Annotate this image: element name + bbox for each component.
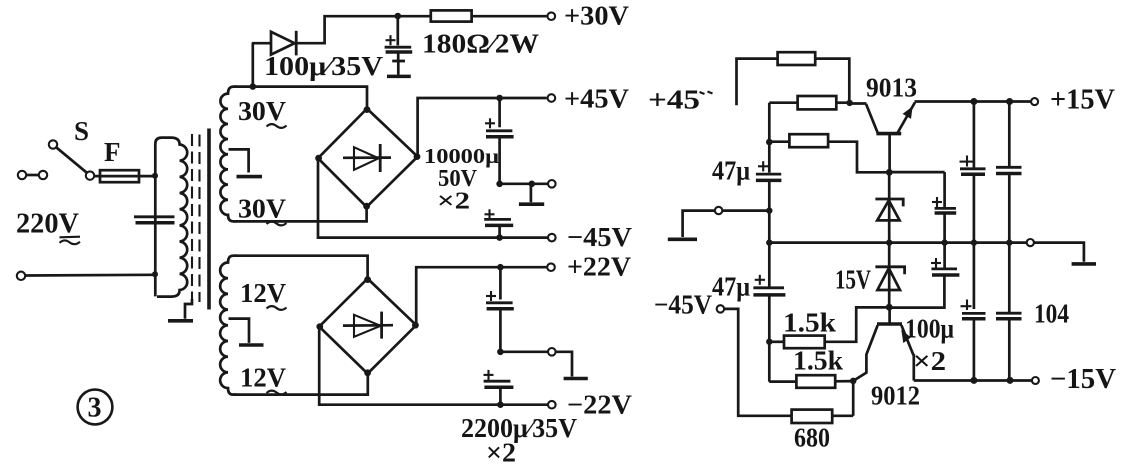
wire R2 right to node A xyxy=(836,101,849,104)
terminal +30V xyxy=(548,12,556,20)
wire bridge1 + up to +45V rail xyxy=(418,98,547,157)
junction node C xyxy=(886,304,893,311)
core laminate dashed line 1 xyxy=(191,134,193,300)
capacitor 100u upper xyxy=(932,201,942,203)
switch S contact xyxy=(86,171,94,179)
svg-text:3: 3 xyxy=(88,393,102,424)
svg-text:100μ: 100μ xyxy=(905,314,954,344)
resistor R2 xyxy=(798,96,837,109)
wire cap to -22V rail xyxy=(499,387,502,404)
wire 30V winding top to bridge 1 xyxy=(233,87,367,109)
svg-text:10000μ: 10000μ xyxy=(424,144,499,168)
secondary winding 30V+30V xyxy=(220,87,237,222)
svg-text:+30V: +30V xyxy=(564,1,630,31)
junction midpoint xyxy=(496,181,503,188)
-15V rail xyxy=(914,379,1032,382)
zener lower 15V xyxy=(888,243,891,290)
svg-text:30V: 30V xyxy=(238,194,287,224)
svg-text:9012: 9012 xyxy=(871,381,920,411)
wire diode to top rail xyxy=(296,16,431,43)
wire 12V winding top to bridge 2 xyxy=(233,256,368,279)
resistor R1 top xyxy=(778,52,816,65)
wire bridge1 - down to -45V rail xyxy=(318,158,548,237)
terminal: AC plug upper pin xyxy=(18,171,26,179)
wire 9013 emitter to +15V terminal xyxy=(915,100,1032,103)
figure number 3 xyxy=(78,390,113,425)
svg-text:+15V: +15V xyxy=(1050,85,1115,116)
12V center tap xyxy=(229,319,250,343)
svg-text:180Ω∕2W: 180Ω∕2W xyxy=(422,29,539,59)
transistor 9012 xyxy=(888,307,891,323)
electrolytic column at 974 xyxy=(970,98,977,105)
ground right of mid terminal xyxy=(1034,243,1084,262)
wire between plug pins xyxy=(27,174,39,177)
wire down to cap xyxy=(499,267,502,299)
terminal +15V xyxy=(1031,98,1038,105)
svg-text:220V: 220V xyxy=(16,208,79,240)
capacitor 100u 35V xyxy=(396,16,399,45)
svg-text:×2: ×2 xyxy=(486,438,516,468)
AC tilde under 220V xyxy=(60,236,81,239)
svg-text:2200μ∕35V: 2200μ∕35V xyxy=(461,413,577,443)
terminal: AC lower pin xyxy=(17,272,25,280)
line filter capacitor across primary, top plate xyxy=(134,215,175,218)
line filter capacitor bottom plate xyxy=(136,221,175,225)
left bus mid segment xyxy=(768,181,771,287)
svg-text:1.5k: 1.5k xyxy=(793,346,843,376)
terminal -22V xyxy=(548,401,556,409)
svg-text:+45: +45 xyxy=(648,85,700,115)
transistor 9013 xyxy=(876,132,901,136)
bridge 2 vertex junctions xyxy=(364,276,371,283)
ceramic 104 column at 1009 xyxy=(1006,98,1013,105)
junction node A xyxy=(846,100,852,106)
bridge 1 vertex junctions xyxy=(364,106,371,113)
svg-text:×2: ×2 xyxy=(437,189,470,215)
core solid line xyxy=(207,129,211,310)
terminal: AC contact xyxy=(39,171,47,179)
svg-text:47μ: 47μ xyxy=(712,156,750,186)
junction upper 1.5k tap xyxy=(766,339,772,345)
primary winding xyxy=(155,138,187,297)
diode D1 xyxy=(252,42,271,45)
wire R2 left to left bus xyxy=(769,101,797,104)
junction at ground stem xyxy=(529,181,536,188)
capacitor elec lower xyxy=(961,305,972,307)
ground under 100u cap xyxy=(397,52,400,60)
svg-text:+45V: +45V xyxy=(564,84,630,114)
capacitor 100u lower xyxy=(943,243,946,268)
svg-text:1.5k: 1.5k xyxy=(783,308,836,338)
wire cap to midpoint xyxy=(499,309,502,352)
wire down to cap C1 xyxy=(498,98,501,127)
junction node D xyxy=(850,378,857,385)
junction 100u column mid rail xyxy=(941,239,947,245)
wire junction up to diode xyxy=(251,43,254,88)
resistor 1.5k lower xyxy=(796,375,835,388)
fuse F body xyxy=(100,170,139,182)
svg-text:15V: 15V xyxy=(835,265,871,295)
junction diode tap xyxy=(250,83,257,90)
svg-text:12V: 12V xyxy=(240,363,286,393)
terminal -45V xyxy=(548,234,556,242)
resistor 1.5k upper xyxy=(784,336,825,349)
capacitor 10000u lower xyxy=(485,213,495,215)
capacitor 104 lower xyxy=(996,312,1022,315)
secondary winding 12V+12V xyxy=(220,256,237,395)
terminal 0V mid xyxy=(548,180,556,188)
wire +45 input stub xyxy=(737,59,778,106)
100u column xyxy=(889,171,944,174)
bridge 2 diamond xyxy=(319,279,416,374)
svg-text:−45V: −45V xyxy=(567,222,633,252)
terminal +45V xyxy=(548,94,556,102)
resistor 680 xyxy=(792,410,833,423)
terminal -15V xyxy=(1032,377,1039,384)
svg-text:104: 104 xyxy=(1034,299,1069,329)
wire 30V winding bottom to bridge 1 xyxy=(233,206,367,221)
wire R3 right to node B xyxy=(828,142,889,173)
resistor 180ohm 2W xyxy=(431,10,472,21)
terminal +22V xyxy=(547,263,555,271)
switch S blade xyxy=(57,148,87,173)
wire 1.5k upper to node C xyxy=(825,307,890,341)
wire bridge2 - down to -22V rail xyxy=(319,327,547,405)
junction at filter cap xyxy=(395,13,402,20)
wire R1 to node A xyxy=(815,59,849,103)
junction zener column on mid rail xyxy=(886,239,892,245)
capacitor 47u upper xyxy=(758,165,768,167)
capacitor 2200u upper xyxy=(486,295,496,297)
30V center tap xyxy=(229,149,249,172)
svg-text:47μ: 47μ xyxy=(712,272,750,302)
wire cap C2 to -45V rail xyxy=(498,226,501,238)
wire cap C1 to midpoint xyxy=(498,137,501,184)
junction R3 tap xyxy=(766,139,773,146)
mid rail output terminal xyxy=(1027,239,1034,246)
switch S pivot xyxy=(49,140,57,148)
junction at fuse output xyxy=(152,173,158,179)
svg-text:9013: 9013 xyxy=(866,73,917,103)
svg-text:×2: ×2 xyxy=(913,346,946,376)
12V center tap ground bar xyxy=(239,343,264,347)
bridge 1 inner diode xyxy=(343,156,391,159)
left bus lower segment xyxy=(768,295,771,382)
wire bridge2 + up to +22V rail xyxy=(416,267,546,325)
mid 0V rail xyxy=(769,241,1026,244)
ground right of mid terminal xyxy=(556,352,572,377)
wire node D down to 680 xyxy=(852,381,855,416)
junction on -45V rail xyxy=(496,234,503,241)
capacitor 10000u upper xyxy=(485,122,495,124)
svg-text:100μ∕35V: 100μ∕35V xyxy=(264,51,384,81)
junction node B xyxy=(886,169,893,176)
junction midpoint 22V xyxy=(497,349,504,356)
terminal 0V mid 22 xyxy=(548,348,556,356)
svg-text:F: F xyxy=(104,137,121,167)
wire midpoint to terminal xyxy=(500,182,548,185)
ground symbol left xyxy=(683,211,715,237)
junction 2200u column top xyxy=(497,264,504,271)
capacitor 47u lower xyxy=(755,279,765,281)
zener upper xyxy=(888,172,891,220)
svg-text:12V: 12V xyxy=(240,278,286,308)
ground at midpoint xyxy=(530,184,533,202)
wire 12V winding bottom to bridge 2 xyxy=(233,373,368,395)
bridge 2 inner diode xyxy=(343,324,393,327)
svg-text:−45V: −45V xyxy=(654,290,712,320)
svg-text:−15V: −15V xyxy=(1050,364,1116,395)
core/shield ground xyxy=(185,299,192,319)
svg-text:30V: 30V xyxy=(238,96,287,126)
wire lower AC to transformer xyxy=(26,273,155,276)
wire midpoint to terminal xyxy=(500,350,547,353)
30V center tap ground bar xyxy=(237,175,263,179)
junction filter column top xyxy=(496,95,503,102)
svg-text:+22V: +22V xyxy=(567,252,632,282)
wire 9012 emitter to -15V rail xyxy=(912,354,915,381)
junction primary bottom xyxy=(152,271,158,277)
junction on -22V rail xyxy=(497,401,504,408)
left bus upper segment xyxy=(768,103,771,173)
wire -45V input to 680 xyxy=(724,309,791,416)
junction mid rail left xyxy=(766,239,772,245)
capacitor elec upper xyxy=(960,161,976,163)
svg-text:S: S xyxy=(74,116,89,146)
svg-text:680: 680 xyxy=(794,423,830,453)
wire resistor to +30V terminal xyxy=(472,15,547,18)
junction ground input tap xyxy=(766,207,772,213)
bridge 1 diamond xyxy=(318,109,418,207)
ground input terminal xyxy=(715,207,722,214)
wire switch to fuse and through fuse xyxy=(94,175,153,178)
wire R3 left xyxy=(769,140,789,143)
core laminate dashed line 2 xyxy=(198,135,200,303)
resistor R3 xyxy=(789,134,828,147)
capacitor 104 upper xyxy=(996,166,1022,169)
capacitor 2200u lower xyxy=(484,374,494,376)
